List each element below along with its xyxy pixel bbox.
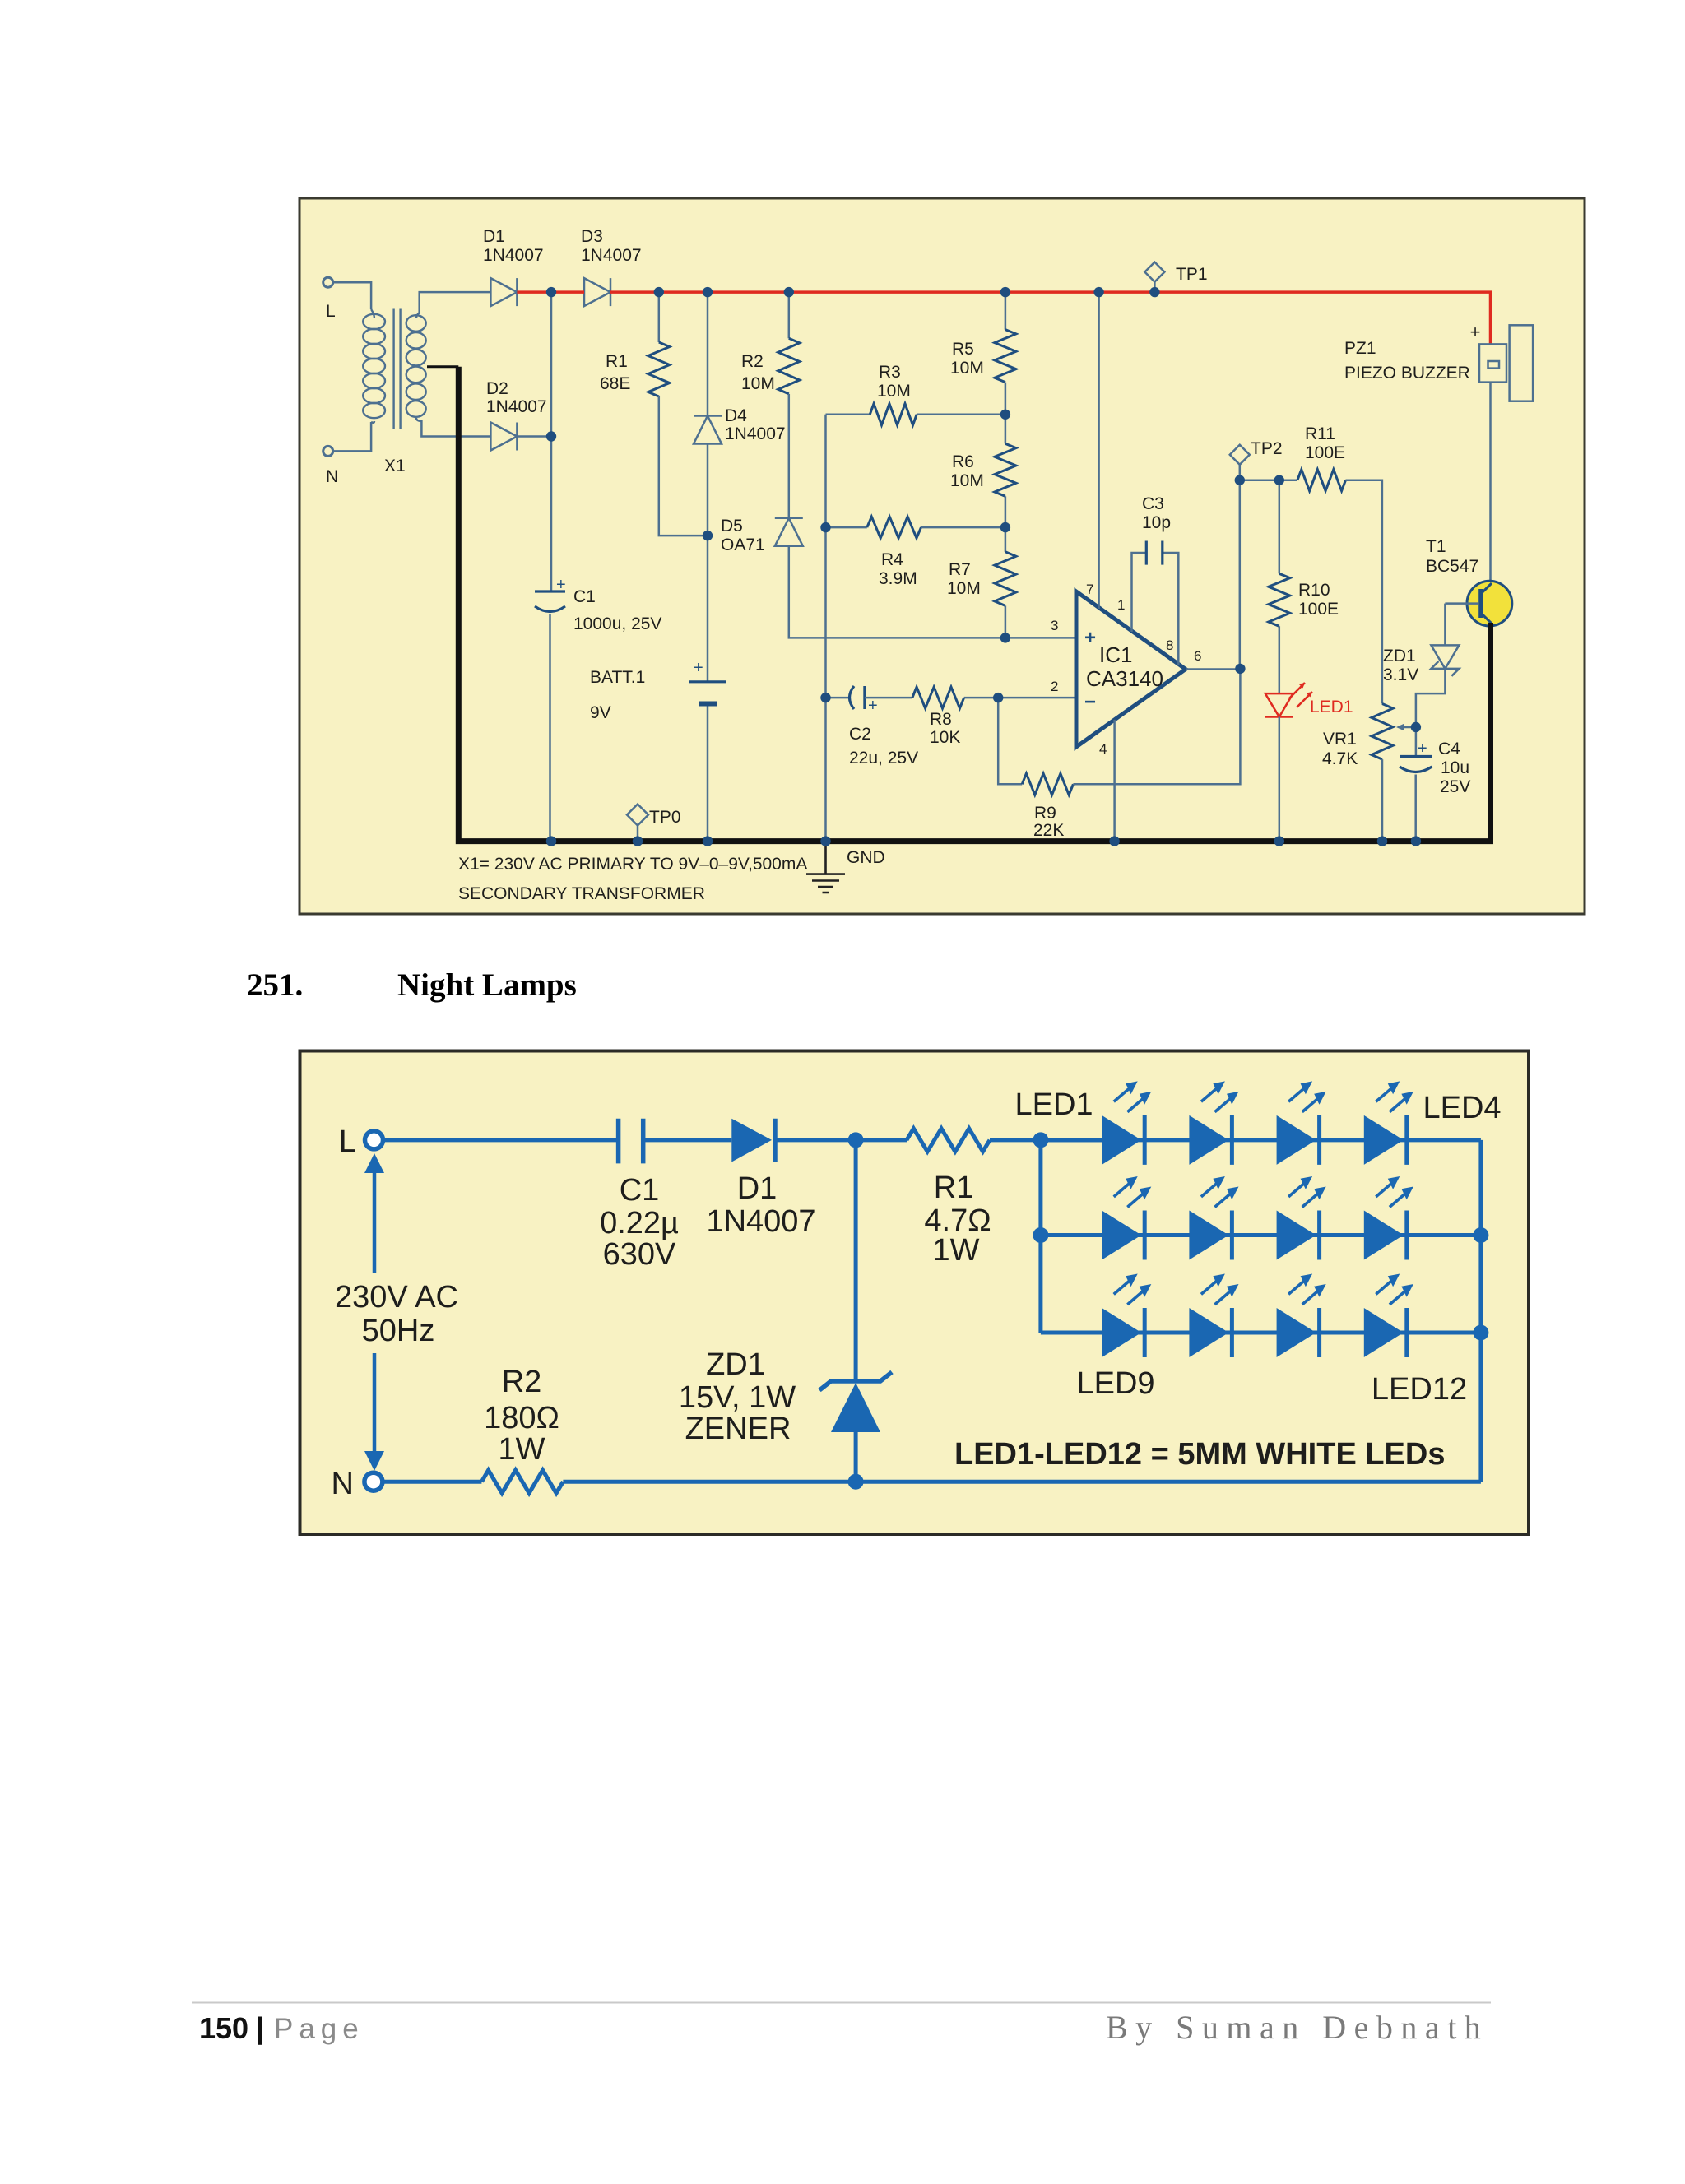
svg-text:T1: T1: [1426, 537, 1446, 556]
diode D5: [775, 518, 803, 546]
svg-text:C1: C1: [620, 1173, 660, 1208]
diode D4 column: [707, 292, 709, 415]
junction dots bottom circuit: [848, 1132, 864, 1148]
svg-text:L: L: [326, 302, 336, 321]
LED4: [1364, 1115, 1404, 1165]
svg-text:D1: D1: [737, 1171, 778, 1206]
wire secondary top to D1 anode: [420, 292, 491, 314]
LED8: [1364, 1211, 1404, 1260]
svg-text:R11: R11: [1305, 424, 1335, 443]
LED2: [1189, 1115, 1228, 1165]
svg-text:3.1V: 3.1V: [1383, 665, 1418, 684]
LED7: [1277, 1211, 1316, 1260]
svg-text:IC1: IC1: [1099, 642, 1132, 667]
pin 8 wire + C3 right: [1163, 553, 1179, 665]
svg-text:0.22µ: 0.22µ: [600, 1206, 679, 1240]
resistor R3: [826, 414, 870, 416]
footer rule: [192, 2002, 1491, 2004]
svg-text:1N4007: 1N4007: [706, 1204, 815, 1239]
wire D5 to pin3 rail: [789, 546, 1076, 638]
svg-text:1W: 1W: [933, 1233, 980, 1268]
LED3: [1277, 1115, 1316, 1165]
red V+ rail: [517, 290, 584, 294]
LED5: [1102, 1211, 1141, 1260]
svg-text:8: 8: [1166, 638, 1173, 653]
svg-text:1N4007: 1N4007: [581, 246, 642, 265]
svg-text:BATT.1: BATT.1: [590, 668, 645, 687]
pin 4 wire: [1113, 720, 1116, 842]
svg-text:C3: C3: [1142, 494, 1164, 513]
svg-text:100E: 100E: [1298, 600, 1339, 619]
svg-text:PZ1: PZ1: [1344, 339, 1376, 358]
test point TP2: [1230, 445, 1250, 465]
transformer centre tap: [427, 365, 458, 368]
svg-text:3: 3: [1051, 618, 1058, 633]
L wire to C1: [383, 1138, 619, 1142]
svg-text:+: +: [1084, 627, 1096, 649]
svg-text:100E: 100E: [1305, 443, 1345, 462]
svg-text:R1: R1: [606, 352, 628, 371]
capacitor C1: [535, 590, 565, 592]
resistor R7: [995, 552, 1016, 606]
svg-text:ZD1: ZD1: [706, 1347, 765, 1382]
svg-text:Night Lamps: Night Lamps: [397, 967, 577, 1003]
LED matrix right rail: [1478, 1140, 1483, 1482]
capacitor C1 (mains): [619, 1119, 643, 1164]
svg-text:9V: 9V: [590, 703, 611, 722]
svg-text:D5: D5: [721, 517, 743, 536]
svg-text:D2: D2: [486, 379, 508, 398]
LED matrix left rail: [1038, 1140, 1042, 1333]
LED1: [1102, 1115, 1141, 1165]
svg-text:251.: 251.: [247, 967, 303, 1003]
svg-text:R1: R1: [934, 1171, 974, 1205]
svg-text:BC547: BC547: [1426, 557, 1478, 576]
svg-text:4.7K: 4.7K: [1322, 749, 1358, 768]
svg-text:LED1: LED1: [1014, 1087, 1093, 1122]
svg-text:R5: R5: [952, 340, 974, 359]
svg-text:|: |: [256, 2011, 264, 2046]
svg-text:OA71: OA71: [721, 536, 765, 554]
LED row 3 wire: [1041, 1331, 1481, 1335]
svg-text:C4: C4: [1438, 740, 1460, 758]
resistor R2 column: [788, 292, 791, 338]
svg-text:C1: C1: [573, 587, 596, 606]
transformer X1 primary winding: [363, 309, 385, 423]
svg-text:R4: R4: [881, 550, 903, 569]
terminal N: [323, 446, 333, 456]
svg-text:LED9: LED9: [1076, 1366, 1154, 1401]
svg-text:68E: 68E: [600, 374, 630, 393]
svg-text:D3: D3: [581, 227, 603, 246]
svg-text:ZENER: ZENER: [685, 1412, 791, 1446]
potentiometer VR1: [1372, 704, 1393, 760]
resistor R4: [826, 526, 867, 529]
230V AC source arrows: [373, 1168, 377, 1456]
svg-text:1N4007: 1N4007: [483, 246, 544, 265]
svg-text:10u: 10u: [1441, 758, 1469, 777]
TP2 riser wire: [1239, 464, 1242, 669]
svg-text:1W: 1W: [499, 1432, 545, 1467]
op-amp output wire pin 6: [1186, 668, 1240, 670]
wire C1 to D1: [643, 1138, 732, 1142]
diode D3: [584, 278, 610, 306]
svg-text:2: 2: [1051, 679, 1058, 694]
resistor R11: [1240, 479, 1297, 481]
capacitor C2: [826, 697, 849, 699]
svg-text:PIEZO BUZZER: PIEZO BUZZER: [1344, 364, 1470, 383]
svg-text:150: 150: [199, 2011, 248, 2045]
svg-text:LED4: LED4: [1423, 1091, 1501, 1125]
N bus wire: [563, 1480, 1481, 1484]
svg-text:X1: X1: [384, 457, 406, 475]
resistor R6: [995, 443, 1016, 496]
LED1 indicator (red): [1265, 693, 1293, 716]
svg-text:R2: R2: [502, 1365, 542, 1399]
resistor R1 column: [658, 292, 661, 342]
wire C1 to ground rail: [549, 614, 551, 842]
junction dots top circuit: [546, 287, 556, 297]
svg-text:1N4007: 1N4007: [486, 397, 547, 416]
svg-text:LED1: LED1: [1310, 698, 1353, 716]
svg-text:VR1: VR1: [1323, 730, 1357, 749]
resistor R9 feedback loop: [998, 698, 1022, 784]
transistor T1 BC547: [1467, 581, 1512, 626]
wire LED1 to ground: [1279, 717, 1281, 842]
svg-text:R9: R9: [1034, 804, 1056, 823]
svg-text:1: 1: [1117, 597, 1125, 613]
wire node C1 column (D1/D2 junction down to C1): [550, 292, 553, 591]
resistor R2 (mains): [481, 1470, 563, 1493]
ground symbol: [806, 842, 845, 893]
LED row 2 wire: [1041, 1233, 1481, 1237]
terminal L (mains): [365, 1131, 383, 1149]
svg-text:N: N: [326, 467, 338, 486]
svg-text:10M: 10M: [741, 374, 775, 393]
svg-text:R7: R7: [949, 560, 971, 579]
battery BATT.1: [689, 680, 726, 683]
svg-text:TP0: TP0: [649, 808, 681, 827]
svg-text:10M: 10M: [877, 382, 911, 401]
svg-text:R6: R6: [952, 452, 974, 471]
resistor R5 column: [1005, 292, 1007, 330]
svg-text:1000u, 25V: 1000u, 25V: [573, 614, 661, 633]
terminal L: [323, 277, 333, 287]
sensor column wire (R3/R4/C2/ground): [824, 415, 827, 842]
test point TP1: [1144, 262, 1164, 282]
svg-text:+: +: [868, 697, 878, 715]
zener ZD1 branch wire: [854, 1140, 858, 1381]
wire L to transformer primary: [333, 282, 371, 309]
wire secondary bottom to D2 anode: [421, 420, 490, 437]
svg-text:+: +: [694, 659, 703, 677]
LED11: [1277, 1308, 1316, 1357]
svg-text:6: 6: [1194, 648, 1201, 664]
svg-text:R3: R3: [879, 363, 901, 382]
resistor R1 (mains): [907, 1129, 990, 1152]
svg-text:TP2: TP2: [1251, 439, 1283, 458]
LED12: [1364, 1308, 1404, 1357]
op-amp IC1 CA3140: [1076, 591, 1186, 747]
LED9: [1102, 1308, 1141, 1357]
svg-text:25V: 25V: [1440, 777, 1470, 796]
pin 1 wire + C3 left: [1132, 553, 1147, 632]
svg-text:10M: 10M: [950, 471, 984, 490]
svg-text:+: +: [556, 576, 566, 594]
svg-text:+: +: [1418, 740, 1427, 758]
svg-text:GND: GND: [847, 848, 885, 867]
svg-text:Page: Page: [274, 2013, 364, 2045]
svg-text:TP1: TP1: [1176, 265, 1208, 284]
capacitor C4: [1400, 755, 1432, 758]
svg-text:10K: 10K: [930, 728, 960, 747]
svg-text:10M: 10M: [950, 359, 984, 378]
ground bus (thick black): [458, 367, 1490, 842]
wire D1 to R1: [775, 1138, 907, 1142]
svg-text:R2: R2: [741, 352, 764, 371]
wire N to transformer primary: [333, 422, 371, 451]
diode D1: [490, 278, 517, 306]
svg-text:+: +: [1470, 322, 1481, 342]
transformer X1 core: [394, 309, 401, 429]
LED6: [1189, 1211, 1228, 1260]
svg-text:50Hz: 50Hz: [362, 1314, 435, 1348]
resistor R8: [912, 687, 964, 708]
svg-text:180Ω: 180Ω: [484, 1401, 559, 1435]
svg-text:LED1-LED12 = 5MM WHITE LEDs: LED1-LED12 = 5MM WHITE LEDs: [954, 1437, 1445, 1472]
capacitor C3: [1146, 541, 1163, 565]
svg-text:N: N: [332, 1467, 354, 1501]
svg-text:3.9M: 3.9M: [879, 569, 917, 588]
svg-text:CA3140: CA3140: [1086, 666, 1163, 691]
zener ZD1: [1444, 604, 1446, 646]
svg-text:−: −: [1084, 691, 1096, 713]
svg-text:1N4007: 1N4007: [725, 424, 786, 443]
diode D1 (mains): [731, 1119, 772, 1162]
svg-text:LED12: LED12: [1372, 1372, 1467, 1407]
svg-text:R10: R10: [1298, 581, 1330, 600]
wire R1 to LED matrix: [990, 1138, 1102, 1142]
diode D2: [490, 423, 517, 451]
svg-text:L: L: [339, 1124, 356, 1159]
wire buzzer to collector: [1489, 383, 1492, 583]
svg-text:22K: 22K: [1033, 821, 1064, 840]
wire D2 cathode to C1 column: [517, 435, 551, 438]
svg-text:ZD1: ZD1: [1383, 647, 1416, 665]
svg-text:10M: 10M: [947, 579, 981, 598]
svg-text:D1: D1: [483, 227, 505, 246]
svg-text:7: 7: [1086, 582, 1093, 597]
piezo buzzer PZ1: [1479, 344, 1506, 382]
resistor R10 column: [1279, 480, 1281, 574]
svg-text:230V AC: 230V AC: [335, 1280, 458, 1315]
svg-text:15V, 1W: 15V, 1W: [679, 1380, 796, 1415]
night lamp panel: [300, 1051, 1529, 1535]
svg-text:630V: 630V: [603, 1237, 676, 1272]
pin 7 wire: [1098, 292, 1100, 609]
terminal N (mains): [364, 1472, 383, 1491]
svg-text:4: 4: [1099, 741, 1107, 757]
svg-text:D4: D4: [725, 406, 747, 425]
svg-text:X1= 230V AC PRIMARY TO 9V–0–9V: X1= 230V AC PRIMARY TO 9V–0–9V,500mA: [458, 855, 807, 874]
svg-text:By Suman Debnath: By Suman Debnath: [1106, 2009, 1488, 2046]
svg-text:SECONDARY TRANSFORMER: SECONDARY TRANSFORMER: [458, 884, 705, 903]
svg-text:22u, 25V: 22u, 25V: [849, 749, 918, 767]
zener ZD1 (15V): [819, 1372, 892, 1390]
transformer X1 secondary winding: [406, 313, 426, 421]
LED row 1 wire: [1041, 1138, 1481, 1142]
svg-text:R8: R8: [930, 710, 952, 729]
svg-text:10p: 10p: [1142, 513, 1171, 532]
test point TP0: [627, 805, 648, 826]
svg-text:C2: C2: [849, 725, 871, 744]
N wire to R2: [383, 1480, 481, 1484]
top schematic panel: [299, 198, 1585, 914]
LED10: [1189, 1308, 1228, 1357]
